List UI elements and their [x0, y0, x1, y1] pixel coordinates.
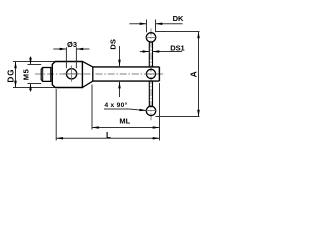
svg-text:DS1: DS1	[170, 43, 184, 52]
dimension M5 lines	[30, 57, 32, 92]
hub circle	[146, 69, 155, 78]
dimension O3 lines	[53, 47, 89, 68]
svg-text:A: A	[188, 71, 198, 77]
DK arrows	[140, 22, 147, 25]
hub center mark	[145, 73, 158, 75]
top stem	[149, 41, 152, 67]
bottom ball	[146, 106, 155, 115]
svg-text:DS: DS	[108, 39, 117, 49]
O3 arrows	[60, 48, 67, 51]
ball center marks	[145, 37, 156, 39]
ML arrows	[92, 126, 99, 129]
dimension DS lines	[119, 46, 121, 97]
leader 4 x 90 lines	[104, 109, 146, 111]
taper	[82, 61, 92, 87]
A arrows	[197, 32, 200, 39]
body hole center mark	[71, 66, 73, 82]
dimension A lines	[156, 32, 200, 117]
DG arrows	[14, 62, 17, 69]
stem bar	[93, 67, 160, 81]
svg-text:Ø3: Ø3	[67, 40, 77, 49]
body hole circle	[66, 69, 76, 79]
svg-text:4 x 90°: 4 x 90°	[104, 101, 127, 109]
horizontal centerline	[35, 73, 165, 75]
M5 stud flange lines	[28, 64, 42, 66]
svg-text:DG: DG	[7, 69, 16, 83]
svg-text:L: L	[106, 131, 111, 140]
dimension DS1 lines	[140, 51, 182, 53]
DS arrows	[118, 60, 121, 67]
dimension L lines	[56, 89, 159, 141]
dimension ML lines	[92, 83, 160, 141]
svg-text:DK: DK	[173, 14, 184, 23]
L arrows	[56, 137, 63, 140]
top ball	[146, 33, 155, 42]
M5 arrows	[29, 58, 32, 65]
svg-text:M5: M5	[21, 69, 30, 81]
vertical centerline star arm	[150, 29, 152, 121]
leader arrow	[139, 109, 146, 111]
thread M5	[41, 68, 51, 82]
svg-text:ML: ML	[119, 116, 130, 125]
dimension DG extension lines	[13, 62, 55, 88]
body	[52, 62, 82, 88]
bottom stem	[149, 81, 152, 107]
DS1 arrows	[143, 50, 150, 53]
dimension DK lines	[130, 20, 183, 33]
